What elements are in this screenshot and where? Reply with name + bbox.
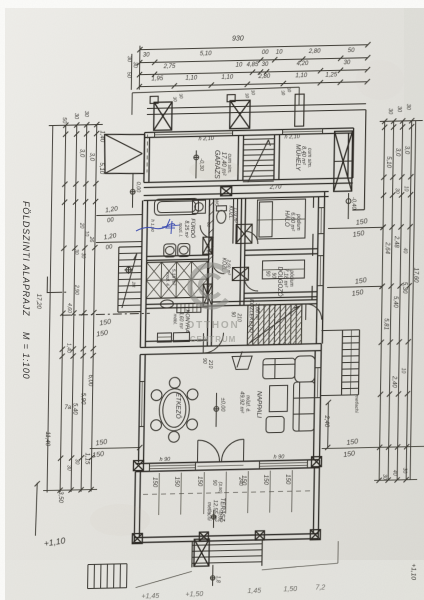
paper white left edge [0,0,5,600]
porch pillar left [154,102,172,130]
garage stairs [243,138,274,141]
middle band left wall [140,201,142,348]
left dimension chains [47,126,53,493]
level mark below steps [212,565,214,586]
terrace right wall [313,468,314,534]
kitchen hatched grid [146,262,161,280]
porch pillar right [230,100,250,128]
corner bracket mark [47,276,62,292]
middle band bottom wall [140,344,321,348]
garage door opening [155,133,233,135]
paper stain 3 [90,504,150,536]
door arc stairhall [306,304,322,320]
terrace column BL [132,533,142,543]
sofa right [293,382,315,431]
dim chain left riser [138,46,141,90]
garden path line [136,571,192,587]
corridor tick marks [209,201,214,206]
porch band lower line [147,110,366,115]
level mark terrace [212,510,214,528]
bathtub [154,198,198,215]
terrace bottom wall [134,534,318,538]
dim 150/150 right lower [322,446,424,448]
door arc to living left [203,333,223,353]
watermark Otthon Centrum [186,265,239,344]
living bottom wall [135,460,319,464]
door arc study [244,277,258,291]
dimension row 2 (5,10 / 2,80) [140,58,368,63]
internal staircase [247,304,302,345]
terrace column BM1 [199,532,208,541]
dim line 1,20 lower [96,241,142,244]
corridor wall left [207,199,209,346]
corridor wall right [240,198,242,305]
terrace left wall [134,472,135,543]
terrace column BM2 [255,531,264,540]
porch pillar cap right [227,95,235,102]
workshop window top [283,130,323,133]
porch pillar third [295,94,304,126]
dining chairs [151,390,162,401]
toilet [216,206,226,211]
level mark garage [195,150,197,178]
eaves outline [132,87,299,93]
washing machine [192,200,205,213]
terrace steps pillar [194,539,209,566]
terrace column BR [310,530,320,540]
porch pillar cap left [150,96,158,103]
middle band top wall [144,192,329,196]
sofa top [263,358,295,379]
wall kamra [232,199,235,244]
coffee table [269,385,287,411]
paper shading bottom [5,560,424,600]
terrace interior dim lines [158,473,161,515]
left outer line bottom [35,483,37,536]
left exterior stairs [118,247,119,312]
door arc halo [245,231,258,244]
living window bottom right [259,463,307,464]
porch roof diagonals [104,134,142,155]
paper stain 2 [280,316,320,344]
door arc wc [212,262,224,274]
porch roof dashed edge [146,134,149,172]
living window bottom left [149,464,195,467]
washbasins [164,244,176,257]
wall kitchen mid [146,303,208,304]
wall kitchen bottom [145,340,207,341]
pillar dolgozo door [232,267,248,280]
blue pen numeral [166,219,175,234]
right dimension chains [379,121,385,480]
garden steps left [87,565,89,589]
window study right [319,256,321,286]
dining table [159,388,190,431]
pillar bath wall b [203,284,212,306]
wall dolgozo/kozl [244,292,317,294]
kitchen counter bars [177,303,201,313]
porch roof outline [104,134,145,175]
kitchen sink oval [160,300,173,308]
terrace dashed line [143,491,312,495]
dimension row 3 (2,75 / 4,85 / 4,20) [140,70,368,75]
dim 150/150 right mid [327,286,382,287]
dining window left [141,381,144,426]
partition garage/stairhall [237,135,240,180]
terrace door sill [197,464,243,467]
pillar halo corner [236,224,252,243]
fireplace [232,356,252,369]
dimension row 4 (1,95 1,10 1,10 2,80 1,10 1,25) [139,82,367,87]
sofa corner [295,356,315,382]
dim 150/150 right upper [328,227,383,228]
left stairs arrow [122,254,137,308]
garage block bottom wall [144,178,353,183]
living window right [316,368,318,398]
study sofa [262,260,304,279]
porch right enclosure [364,110,366,210]
dimension row total 930 [140,45,368,50]
partition stairhall/workshop [273,135,276,180]
kitchen cabinets [157,333,171,342]
living right wall [314,351,316,459]
bed platform [257,199,306,239]
terrace double door left leaf [196,440,198,462]
workshop pillar hatched [334,131,353,191]
pillar bath wall a [203,237,212,254]
wall halo/dolgozo [245,249,318,251]
gap pillar [221,187,232,196]
paper white top edge [0,0,424,8]
terrace column TL [133,460,143,470]
level mark -0,40 [347,193,349,219]
garage stairs arrow [248,140,269,182]
left stairs level mark [126,267,131,272]
right stairs link [321,329,342,331]
faint bottom text [141,584,325,600]
terrace column TR [311,457,321,467]
armchair [266,416,284,432]
dim 150/150 left lower [90,448,140,449]
paper stain 4 [356,60,404,100]
paper shading right [404,8,424,600]
window bedroom right [320,208,322,234]
dim line 1,20 upper [96,214,142,217]
terrace steps [191,541,193,567]
living left wall [139,355,141,463]
garage block right wall [347,133,350,178]
middle band right wall [316,197,318,344]
terrace double door right leaf [242,439,244,461]
inner wall bedroom [312,197,314,208]
door arc bath [200,225,213,238]
internal staircase diagonal [249,306,300,343]
level mark living [215,393,218,427]
right stairs dim [327,402,330,447]
garage block left wall [143,133,146,183]
right exterior stairs [341,330,342,395]
paper stain 1 [189,160,241,180]
scan grain overlay [0,0,1,1]
porch band upper line [147,104,366,109]
wall bath/kitchen [147,255,209,256]
garage block top wall [145,128,354,133]
section line left [62,313,150,315]
blue pen squiggle [136,224,175,231]
wall stairs top [212,300,317,302]
level mark driveway [131,174,134,208]
